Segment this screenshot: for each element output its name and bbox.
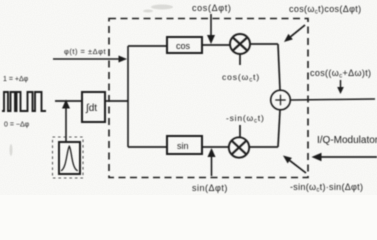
wire sin box to mixer M2	[202, 146, 229, 148]
mixer M1 circle	[230, 34, 250, 54]
wire branch to cos box	[128, 45, 167, 47]
label -sin sin bottom right	[290, 182, 363, 194]
sin block box	[167, 136, 202, 154]
label cos(dphi t) top	[192, 3, 232, 13]
I/Q modulator dashed boundary box	[109, 19, 308, 178]
svg-text:-sin(ωct): -sin(ωct)	[226, 113, 265, 125]
arrow sin(dphi t) up to wire	[211, 157, 213, 176]
data square wave	[2, 92, 46, 111]
mixer M1 carrier stem	[239, 54, 241, 65]
svg-text:cos(ωct): cos(ωct)	[222, 72, 260, 84]
label cos(wct)	[222, 72, 260, 84]
wire cos box to mixer M1	[202, 44, 230, 46]
label cos(wct)cos(dphit) top right	[289, 4, 362, 16]
output annotation arrow down	[340, 80, 342, 87]
annotation arrow to top corner	[291, 25, 305, 37]
wire M2 to corner	[250, 146, 279, 148]
wire corner down to summer	[278, 44, 280, 90]
svg-text:∫dt: ∫dt	[85, 103, 97, 114]
wire integrator to branch	[105, 100, 128, 102]
wire waveform to integrator	[55, 100, 82, 102]
svg-text:sin: sin	[177, 141, 189, 151]
output wire	[290, 99, 375, 100]
filter annotation arrow up	[65, 109, 67, 143]
integrator label	[85, 103, 97, 114]
branch vertical wire	[127, 46, 129, 147]
gaussian filter G1 dashed outer box	[53, 137, 84, 178]
svg-text:cos(Δφt): cos(Δφt)	[192, 3, 232, 13]
cos block box	[167, 37, 202, 53]
mixer M2 X	[232, 141, 246, 154]
wire branch to sin box	[128, 146, 167, 148]
I/Q annotation arrow left	[322, 156, 377, 158]
svg-text:1 = +Δφ: 1 = +Δφ	[3, 76, 29, 83]
svg-text:sin(Δφt): sin(Δφt)	[192, 183, 228, 193]
mixer M2 carrier stem	[239, 125, 241, 138]
svg-text:-sin(ωct)·sin(Δφt): -sin(ωct)·sin(Δφt)	[290, 182, 363, 194]
svg-text:0 = −Δφ: 0 = −Δφ	[4, 122, 30, 129]
label -sin(wct)	[226, 113, 265, 125]
mixer M1 X	[233, 38, 247, 50]
wire corner up to summer	[278, 110, 280, 147]
label sin(dphi t) bottom	[192, 183, 228, 193]
input phase label	[64, 47, 106, 56]
node bit-0 label	[4, 122, 30, 129]
svg-text:cos(ωct)cos(Δφt): cos(ωct)cos(Δφt)	[289, 4, 362, 16]
annotation arrow to bottom corner	[290, 161, 306, 173]
faint scan smudges	[10, 5, 174, 157]
output label cos((wc+dw)t)	[310, 68, 371, 80]
svg-text:cos: cos	[176, 41, 191, 51]
label I/Q-Modulator	[317, 135, 377, 146]
gaussian filter G1 box	[59, 142, 80, 174]
mixer M2 circle	[229, 137, 249, 157]
summer plus	[275, 95, 285, 105]
gaussian bell curve	[61, 146, 78, 171]
integrator U1 box	[82, 92, 105, 122]
svg-text:I/Q-Modulator: I/Q-Modulator	[317, 135, 377, 146]
input annotation arrow	[53, 58, 119, 60]
wire M1 to corner	[250, 43, 278, 45]
node bit-1 label	[3, 76, 29, 83]
summer S1 circle	[271, 90, 291, 110]
arrow cos(dphi t) down to wire	[210, 14, 212, 35]
svg-text:φ(t) = ±Δφt: φ(t) = ±Δφt	[64, 47, 106, 56]
